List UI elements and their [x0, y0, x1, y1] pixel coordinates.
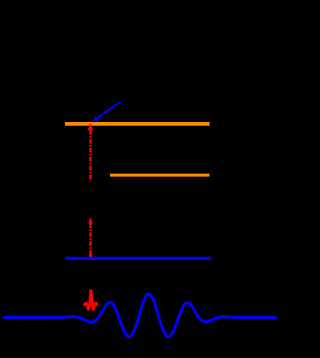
- amplified output wave (blue wave packet): [4, 294, 277, 337]
- lower segment: label gap to E1: [89, 224, 91, 256]
- arrowhead up at E3: [88, 123, 94, 131]
- arrowhead down at E1: [88, 255, 93, 259]
- upper energy level E3 (orange): [65, 122, 210, 126]
- laser transition: red dash-dot double-headed arrow: [88, 123, 94, 259]
- arrowhead up at middle (below label gap): [88, 217, 93, 224]
- upper segment: E3 to label gap: [89, 130, 91, 181]
- seed input pulse (small red wavelet): [85, 291, 97, 310]
- middle energy level E2 (orange): [110, 174, 210, 177]
- ground energy level E1 (blue): [65, 257, 211, 260]
- pump arrow (blue, diagonal photon arrow into upper level): [93, 102, 120, 122]
